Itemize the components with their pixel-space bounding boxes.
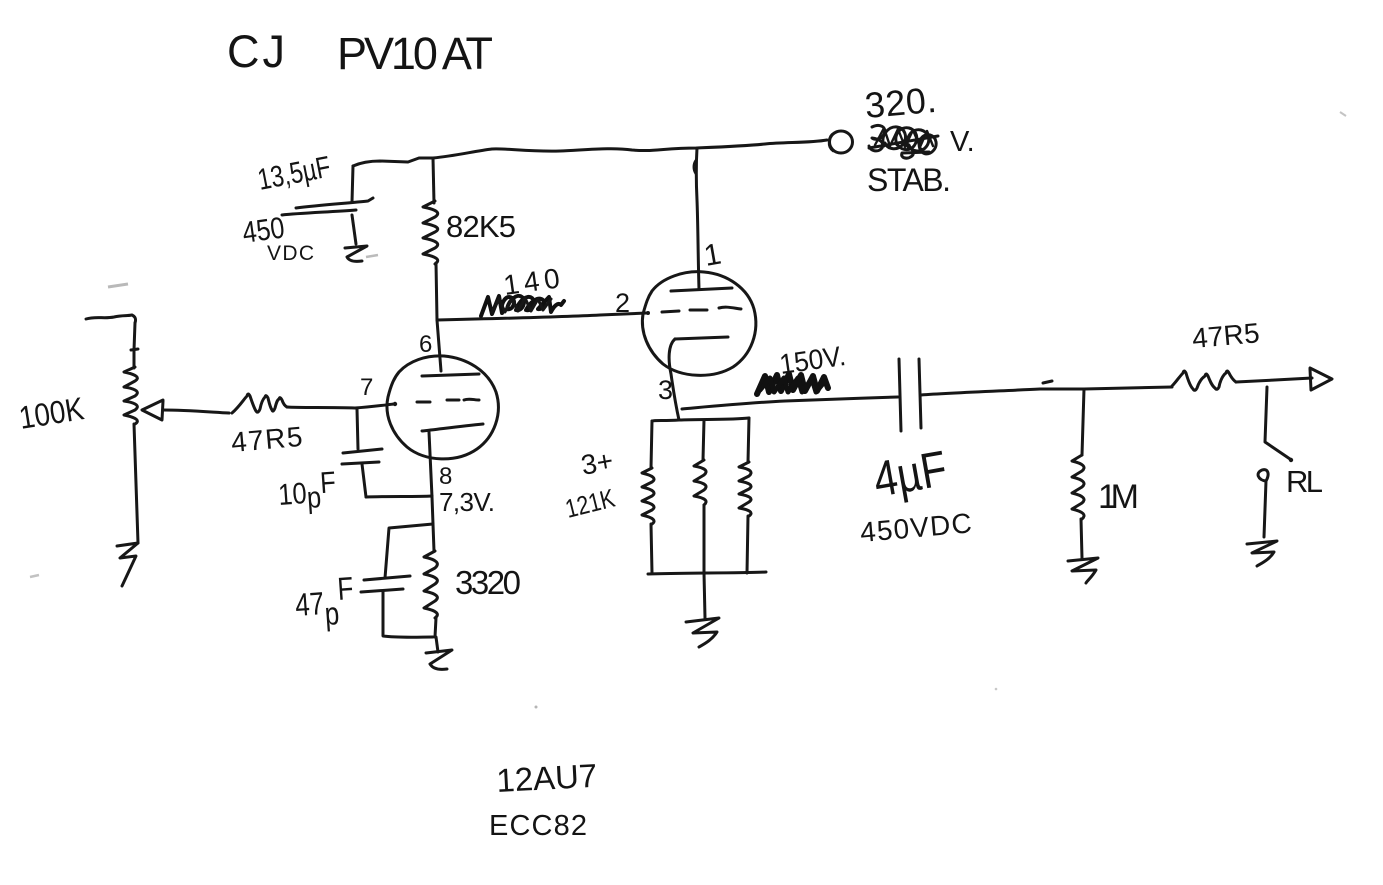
svg-text:3: 3 (658, 375, 673, 405)
svg-text:ECC82: ECC82 (489, 810, 587, 842)
svg-text:CJ: CJ (227, 26, 285, 77)
svg-text:2: 2 (615, 288, 630, 318)
svg-text:STAB.: STAB. (867, 162, 951, 198)
svg-text:320.: 320. (863, 79, 938, 126)
svg-text:VDC: VDC (267, 242, 314, 265)
svg-text:3320: 3320 (455, 564, 521, 601)
svg-text:7,3V.: 7,3V. (439, 487, 495, 517)
svg-text:1M: 1M (1098, 478, 1139, 516)
svg-text:RL: RL (1286, 464, 1323, 499)
svg-text:7: 7 (360, 374, 373, 401)
svg-text:47R5: 47R5 (1191, 317, 1261, 354)
svg-text:8: 8 (439, 463, 452, 490)
svg-text:6: 6 (419, 331, 432, 358)
svg-text:47R5: 47R5 (230, 421, 305, 458)
svg-text:V.: V. (950, 126, 975, 158)
svg-text:3+: 3+ (579, 445, 616, 481)
svg-text:12AU7: 12AU7 (495, 757, 598, 799)
svg-text:PV10 AT: PV10 AT (337, 28, 493, 79)
svg-text:82K5: 82K5 (446, 209, 516, 244)
